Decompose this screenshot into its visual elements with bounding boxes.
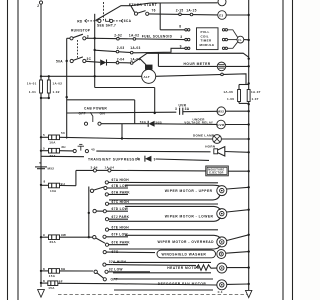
svg-text:RD: RD	[77, 19, 83, 23]
svg-text:3C: 3C	[87, 57, 92, 61]
svg-text:9W: 9W	[61, 233, 66, 237]
svg-text:8: 8	[43, 267, 45, 271]
svg-text:67E HIGH: 67E HIGH	[112, 226, 130, 230]
svg-text:15A: 15A	[48, 286, 55, 290]
svg-text:FUEL SOLENOID: FUEL SOLENOID	[142, 34, 173, 38]
svg-text:67K PARK: 67K PARK	[112, 241, 131, 245]
svg-text:M52: M52	[218, 110, 225, 114]
svg-text:8: 8	[44, 180, 46, 184]
svg-text:3: 3	[175, 107, 177, 111]
svg-text:45: 45	[91, 147, 95, 151]
svg-text:2-03: 2-03	[117, 46, 125, 50]
svg-text:MODULE: MODULE	[200, 43, 215, 47]
svg-text:1-06: 1-06	[227, 97, 234, 101]
svg-text:M52: M52	[48, 166, 55, 170]
svg-text:1A-01: 1A-01	[27, 82, 37, 86]
svg-text:SEE SHT.7: SEE SHT.7	[97, 23, 116, 27]
svg-text:15A: 15A	[49, 274, 56, 278]
svg-text:3: 3	[87, 34, 89, 38]
svg-text:E3: E3	[219, 13, 223, 17]
svg-text:1A-06: 1A-06	[223, 90, 233, 94]
svg-text:CAB POWER: CAB POWER	[84, 107, 107, 111]
svg-text:1A-04: 1A-04	[130, 58, 140, 62]
svg-text:32 LOW: 32 LOW	[109, 268, 124, 272]
svg-text:3: 3	[180, 35, 182, 39]
svg-text:RUN/STOP: RUN/STOP	[71, 29, 91, 33]
svg-text:WIPER MOTOR - OVERHEAD: WIPER MOTOR - OVERHEAD	[158, 240, 215, 244]
svg-text:1A-04: 1A-04	[105, 165, 115, 169]
svg-text:1A-03: 1A-03	[130, 46, 140, 50]
svg-text:2-02: 2-02	[114, 33, 122, 37]
svg-text:50A: 50A	[56, 60, 63, 64]
svg-text:ETHER START: ETHER START	[129, 3, 158, 7]
svg-text:1-07: 1-07	[252, 97, 259, 101]
svg-text:67F LOW: 67F LOW	[112, 233, 129, 237]
svg-text:EJECTOR: EJECTOR	[209, 171, 223, 175]
svg-text:8: 8	[43, 279, 45, 283]
svg-text:DOME LAMP: DOME LAMP	[193, 133, 214, 137]
svg-text:3A: 3A	[185, 107, 190, 111]
svg-text:UVR: UVR	[217, 123, 225, 127]
svg-text:20A: 20A	[50, 240, 57, 244]
svg-text:67B LOW: 67B LOW	[112, 184, 129, 188]
svg-text:HEATER MOTOR: HEATER MOTOR	[167, 266, 200, 270]
svg-text:67H PARK: 67H PARK	[112, 190, 131, 194]
svg-text:67D LOW: 67D LOW	[112, 207, 129, 211]
svg-text:3-04: 3-04	[91, 165, 98, 169]
svg-text:9: 9	[180, 44, 182, 48]
svg-text:67J PARK: 67J PARK	[112, 215, 130, 219]
svg-text:9: 9	[43, 233, 45, 237]
svg-text:C.3: C.3	[218, 290, 223, 294]
svg-text:67G: 67G	[112, 250, 119, 254]
svg-text:VOLTAGE RELAY: VOLTAGE RELAY	[184, 121, 213, 125]
svg-text:OFF: OFF	[111, 278, 118, 282]
svg-text:76: 76	[152, 8, 156, 12]
svg-text:3H: 3H	[61, 145, 65, 149]
svg-text:67A HIGH: 67A HIGH	[112, 178, 130, 182]
svg-text:1-02: 1-02	[53, 90, 60, 94]
svg-text:1A-02: 1A-02	[53, 82, 63, 86]
svg-text:1A-15: 1A-15	[186, 8, 196, 12]
svg-text:OFF: OFF	[79, 112, 86, 116]
svg-text:5: 5	[43, 147, 45, 151]
svg-text:50: 50	[61, 131, 65, 135]
svg-text:2-15: 2-15	[176, 9, 184, 13]
svg-text:WIPER MOTOR - UPPER: WIPER MOTOR - UPPER	[165, 189, 213, 193]
svg-text:ALT: ALT	[144, 75, 151, 79]
svg-text:1A-07: 1A-07	[251, 90, 261, 94]
svg-text:2-04: 2-04	[117, 58, 125, 62]
svg-text:TRANSIENT SUPPRESSOR: TRANSIENT SUPPRESSOR	[88, 157, 141, 161]
svg-text:2: 2	[37, 4, 39, 8]
svg-text:9: 9	[137, 157, 139, 161]
svg-text:ON: ON	[100, 112, 106, 116]
svg-text:5: 5	[39, 161, 41, 165]
svg-text:HORN: HORN	[205, 145, 215, 149]
svg-text:9: 9	[154, 157, 156, 161]
svg-text:FL: FL	[238, 38, 242, 42]
svg-text:8: 8	[179, 25, 181, 29]
svg-text:1A-02: 1A-02	[129, 33, 139, 37]
svg-text:HOUR METER: HOUR METER	[184, 62, 211, 66]
svg-text:10A: 10A	[50, 189, 57, 193]
svg-text:WINDSHIELD WASHER: WINDSHIELD WASHER	[162, 253, 207, 257]
svg-text:WIPER MOTOR - LOWER: WIPER MOTOR - LOWER	[165, 215, 214, 219]
svg-text:1-01: 1-01	[29, 90, 36, 94]
svg-text:50B: 50B	[156, 120, 163, 124]
svg-text:5: 5	[43, 133, 45, 137]
svg-text:50A: 50A	[140, 120, 147, 124]
svg-text:10A: 10A	[49, 141, 56, 145]
svg-text:6CA: 6CA	[124, 19, 132, 23]
